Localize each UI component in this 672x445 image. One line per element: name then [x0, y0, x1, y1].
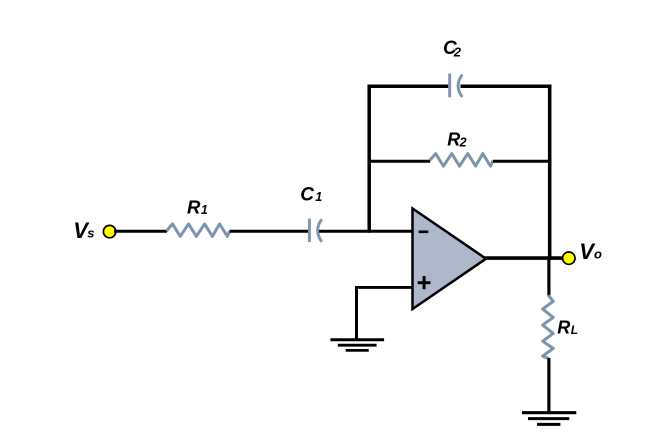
capacitor C2 [450, 74, 463, 98]
svg-text:L: L [571, 323, 578, 337]
resistor R1 [167, 224, 230, 237]
wire non-inverting input [357, 286, 414, 289]
svg-text:R: R [187, 196, 201, 217]
wire RL to ground [547, 358, 550, 412]
terminal node Vo [563, 252, 575, 264]
wire feedback left vertical [367, 85, 371, 233]
wire C2 branch right [461, 84, 552, 88]
resistor R2 [430, 154, 493, 167]
svg-text:R: R [447, 130, 460, 150]
label RL [557, 318, 578, 338]
wire R2 branch left [368, 160, 431, 163]
label R2 [447, 130, 466, 150]
label C2 [443, 38, 462, 60]
svg-text:R: R [557, 318, 570, 338]
wire op-amp output [485, 256, 563, 260]
label R1 [187, 196, 208, 217]
wire output node to RL [547, 258, 550, 295]
svg-text:s: s [87, 226, 94, 241]
terminal node Vs [103, 225, 115, 237]
label C1 [300, 184, 322, 205]
label Vs [73, 218, 94, 243]
wire C2 branch left [368, 84, 449, 88]
op-amp U1 [413, 209, 487, 310]
svg-text:1: 1 [315, 190, 322, 204]
ground (load) [522, 413, 576, 425]
ground (non-inverting input) [330, 340, 384, 351]
wire C1 to inverting input [319, 230, 413, 233]
wire R2 branch right [493, 160, 552, 163]
svg-text:1: 1 [201, 203, 208, 217]
op-amp plus pin [418, 276, 431, 289]
wire Vs to R1 [114, 230, 167, 233]
label Vo [579, 239, 602, 264]
wire plus input down to ground [355, 286, 358, 340]
svg-text:o: o [594, 247, 602, 262]
capacitor C1 [309, 219, 321, 243]
svg-text:2: 2 [459, 136, 467, 150]
op-amp minus pin [419, 231, 429, 234]
svg-text:2: 2 [453, 45, 462, 60]
svg-text:C: C [300, 184, 314, 205]
resistor RL [543, 295, 554, 358]
wire feedback right vertical [548, 85, 552, 260]
wire R1 to C1 [230, 230, 309, 233]
